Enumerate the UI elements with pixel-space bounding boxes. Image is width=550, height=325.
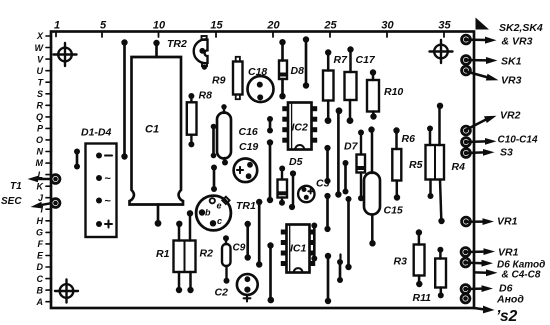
wire [324, 145, 330, 184]
terminal T1 [10, 175, 60, 192]
svg-text:C17: C17 [356, 54, 376, 66]
diode D7 [344, 130, 365, 202]
wire [337, 255, 343, 284]
svg-text:P: P [37, 124, 44, 134]
svg-text:S3: S3 [500, 147, 513, 159]
capacitor C17 [345, 46, 376, 124]
svg-text:IC1: IC1 [290, 243, 307, 255]
resistor R11 [413, 247, 447, 304]
wire [345, 196, 351, 270]
wire [335, 107, 342, 197]
resistor R8 [187, 90, 212, 148]
wire [267, 139, 273, 203]
svg-text:V: V [37, 54, 44, 64]
capacitor C1 [130, 40, 184, 227]
svg-text:D7: D7 [344, 141, 359, 153]
svg-text:R10: R10 [384, 86, 403, 98]
terminal SEC [1, 196, 60, 208]
mounting hole top-right [430, 40, 453, 63]
svg-text:35: 35 [438, 20, 451, 32]
svg-text:10: 10 [153, 20, 166, 32]
ic IC2 [282, 103, 317, 150]
svg-text:D5: D5 [289, 156, 303, 168]
arrow C4-C8 [475, 269, 541, 280]
svg-text:25: 25 [323, 20, 337, 32]
svg-text:C1: C1 [145, 124, 159, 136]
svg-text:R11: R11 [413, 292, 432, 304]
svg-text:B: B [37, 285, 44, 295]
rectifier D1-D4 [81, 127, 117, 238]
wire [324, 193, 330, 232]
svg-text:Анод: Анод [496, 294, 524, 306]
svg-text:R2: R2 [200, 248, 214, 260]
capacitor C16 [217, 104, 258, 165]
column ruler ticks [56, 32, 444, 38]
terminal D6 cathode [461, 258, 545, 270]
svg-text:5: 5 [100, 20, 107, 32]
capacitor C19 [234, 141, 259, 182]
wire [325, 253, 331, 304]
svg-text:R: R [37, 101, 44, 111]
svg-text:30: 30 [381, 20, 394, 32]
resistor R4 [437, 103, 465, 225]
capacitor C3 [298, 178, 329, 203]
wire [267, 116, 273, 134]
wire [74, 149, 80, 170]
resistor R7 [323, 49, 348, 124]
svg-text:D8: D8 [291, 65, 305, 77]
svg-text:SK2,SK4: SK2,SK4 [499, 22, 543, 34]
transistor TR1 [196, 196, 256, 231]
svg-text:G: G [36, 228, 43, 238]
terminal S3 [462, 147, 513, 159]
svg-text:1: 1 [54, 20, 60, 32]
terminal VR2 [462, 110, 521, 135]
wire [343, 160, 349, 195]
wire [211, 124, 217, 159]
row letters [35, 31, 45, 307]
capacitor C18 [248, 66, 274, 102]
svg-text:b: b [205, 208, 211, 218]
resistor R5 [409, 126, 444, 200]
svg-text:R9: R9 [212, 75, 226, 87]
terminal C10-C14 [462, 135, 538, 147]
svg-text:R4: R4 [452, 161, 466, 173]
resistor R10 [367, 69, 403, 119]
terminal D6 anode [461, 283, 524, 306]
svg-text:15: 15 [210, 20, 223, 32]
svg-text:H: H [37, 216, 44, 226]
capacitor C15 [364, 126, 403, 246]
board outline [51, 32, 474, 309]
diode D8 [279, 39, 304, 99]
terminal VR1 lower [461, 247, 518, 259]
svg-text:R3: R3 [394, 256, 408, 268]
svg-text:VR1: VR1 [498, 247, 519, 259]
wire [289, 170, 296, 210]
svg-text:IC2: IC2 [292, 122, 309, 134]
svg-text:U: U [37, 66, 44, 76]
svg-text:c: c [217, 216, 222, 226]
svg-text:M: M [36, 158, 44, 168]
wire [211, 165, 217, 193]
svg-text:SEC: SEC [1, 196, 22, 207]
svg-text:& VR3: & VR3 [502, 36, 533, 48]
svg-text:VR3: VR3 [501, 75, 522, 87]
corner mark top-right [476, 18, 490, 30]
mounting hole bottom-left [55, 280, 78, 303]
svg-text:Q: Q [36, 112, 43, 122]
wire [267, 242, 274, 303]
terminal VR1 upper [462, 216, 518, 228]
svg-text:VR1: VR1 [497, 216, 518, 228]
terminal SK2,SK4 & VR3 [462, 22, 543, 48]
capacitor C9 [222, 235, 246, 283]
svg-text:C2: C2 [215, 287, 229, 299]
svg-text:C19: C19 [239, 141, 258, 153]
svg-text:~: ~ [105, 173, 112, 185]
svg-text:A: A [36, 297, 44, 307]
terminal lower pair second [461, 294, 470, 303]
svg-text:C: C [37, 274, 44, 284]
svg-text:TR2: TR2 [167, 38, 187, 50]
ic IC1 [281, 225, 315, 273]
svg-text:S: S [37, 89, 43, 99]
svg-text:C9: C9 [233, 243, 246, 254]
svg-text:R5: R5 [409, 159, 423, 171]
svg-text:D1-D4: D1-D4 [81, 127, 112, 139]
svg-text:F: F [38, 239, 44, 249]
capacitor C2 [215, 274, 258, 301]
svg-text:& C4-C8: & C4-C8 [502, 270, 541, 281]
resistor R2 [187, 210, 213, 293]
svg-text:O: O [36, 135, 43, 145]
svg-text:R1: R1 [156, 248, 170, 260]
arrow S2 bottom-right [474, 306, 518, 325]
svg-text:R7: R7 [334, 54, 349, 66]
diode D5 [278, 156, 303, 206]
svg-text:R6: R6 [402, 133, 416, 145]
wire [121, 39, 127, 159]
svg-text:20: 20 [266, 20, 280, 32]
resistor R3 [394, 229, 425, 287]
svg-text:’s2: ’s2 [496, 308, 518, 325]
svg-text:C16: C16 [239, 126, 258, 138]
wire [245, 221, 251, 261]
svg-text:e: e [217, 201, 222, 211]
row ruler ticks [46, 36, 52, 302]
svg-text:E: E [37, 251, 44, 261]
wire [311, 223, 317, 262]
wire [303, 36, 309, 88]
svg-text:VR2: VR2 [500, 110, 521, 122]
terminal VR3 [462, 66, 522, 86]
terminal SK1 [462, 56, 522, 68]
mounting hole top-left [54, 43, 77, 66]
resistor R1 [156, 221, 196, 294]
svg-text:N: N [37, 147, 44, 157]
svg-text:C10-C14: C10-C14 [498, 135, 538, 146]
svg-text:~: ~ [105, 196, 112, 208]
svg-text:C15: C15 [384, 205, 403, 217]
svg-text:T1: T1 [10, 181, 22, 192]
svg-text:SK1: SK1 [501, 56, 522, 68]
wire [256, 199, 262, 268]
resistor R9 [212, 57, 243, 99]
column ruler numbers [54, 20, 452, 32]
svg-text:TR1: TR1 [236, 200, 256, 212]
svg-text:D: D [37, 262, 44, 272]
svg-text:X: X [36, 31, 44, 41]
resistor R6 [392, 127, 415, 200]
transistor TR2 [167, 36, 208, 70]
svg-text:R8: R8 [199, 90, 213, 102]
